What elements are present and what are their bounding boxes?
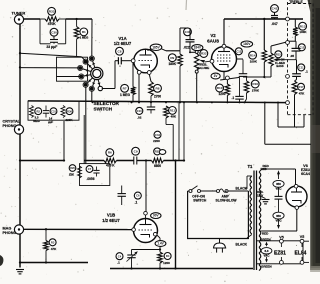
wire cathode V1B (157, 235, 161, 252)
svg-text:6CA4: 6CA4 (301, 172, 310, 176)
svg-text:R2: R2 (36, 109, 40, 113)
label .0056 (87, 177, 95, 181)
svg-text:47K: 47K (299, 91, 305, 95)
svg-text:1 MEG: 1 MEG (80, 36, 89, 40)
heater pin V5 top (280, 239, 284, 243)
svg-text:R16: R16 (252, 82, 258, 86)
resistor R10 (225, 80, 230, 103)
svg-text:C4: C4 (118, 254, 122, 258)
svg-text:R32: R32 (201, 52, 207, 56)
wire vert 184 (183, 102, 185, 161)
label 47K (299, 91, 305, 95)
svg-text:TREBLE: TREBLE (289, 0, 303, 4)
capacitor C13 designator (298, 44, 305, 51)
wire cathode left pin down (138, 74, 140, 102)
heater wires right (304, 241, 309, 262)
label 470K (106, 163, 115, 167)
svg-text:C10: C10 (137, 109, 142, 113)
label SELECTOR SWITCH (94, 101, 120, 111)
label TREB VOLUME (196, 63, 209, 70)
gang pin (286, 101, 290, 105)
resistor R11 (164, 106, 169, 125)
svg-text:90V: 90V (153, 214, 160, 218)
label 270K (252, 89, 260, 93)
svg-text:RED: RED (263, 164, 270, 168)
resistor R16 designator (251, 80, 259, 88)
junction (138, 101, 140, 103)
svg-text:R4: R4 (166, 254, 170, 258)
junction (277, 102, 279, 104)
svg-text:V2: V2 (210, 33, 216, 38)
jack J3 MAG (14, 225, 23, 234)
dashed gang top (288, 3, 314, 5)
svg-text:1 MEG: 1 MEG (120, 93, 130, 97)
label .047 (271, 22, 277, 26)
svg-text:470K: 470K (48, 22, 57, 26)
capacitor C feedback (235, 77, 243, 102)
label AMP SLOW-BLOW (216, 194, 238, 202)
svg-text:270K: 270K (252, 89, 260, 93)
svg-text:μμF: μμF (48, 120, 54, 124)
wire left vertical lower (19, 133, 21, 225)
wire selector to C7 box (85, 87, 87, 164)
capacitor C6 stub (118, 186, 126, 206)
wire pot wiper node (296, 60, 298, 74)
tube V1A (134, 49, 158, 73)
svg-text:.0056: .0056 (87, 177, 95, 181)
secondary tap lead (259, 196, 266, 199)
measure wire mid (278, 187, 280, 196)
svg-text:180V: 180V (243, 42, 251, 46)
selector switch SW1 (78, 56, 103, 92)
voltage 350VAC (273, 180, 284, 190)
secondary mid lead RED (259, 230, 297, 232)
label .02 (137, 116, 142, 120)
dashed gang right (312, 4, 314, 115)
wire phono feed upper (20, 53, 86, 61)
wire mag jack down to ground (19, 233, 21, 268)
svg-text:EZ81: EZ81 (274, 250, 286, 256)
svg-text:R9: R9 (170, 56, 174, 60)
label 45K (171, 115, 177, 119)
wire top bus y19 (224, 18, 303, 20)
wire tuner to R33 box (23, 18, 40, 20)
potentiometer R32 (194, 50, 199, 102)
svg-text:R15: R15 (276, 52, 281, 56)
label TREBLE top fragment (289, 0, 303, 4)
designator A1 (69, 165, 76, 172)
AC plug (213, 239, 226, 253)
junction (131, 101, 133, 103)
svg-text:22K: 22K (69, 172, 75, 176)
wire down to selector top (91, 19, 93, 56)
pot R32 designator (200, 50, 208, 58)
resistor R7 (131, 63, 136, 103)
selector wiring box (57, 57, 88, 81)
pot R15 designator (275, 51, 282, 58)
svg-text:C7: C7 (88, 167, 92, 171)
svg-text:.05: .05 (290, 54, 295, 58)
label R15 lines (275, 58, 285, 68)
resistor R4 (158, 252, 163, 269)
resistor R5 in box (78, 166, 82, 178)
resistor R3 (44, 228, 49, 262)
resistor R7 designator (121, 84, 129, 92)
label V6 (301, 164, 310, 176)
resistor R10 designator (216, 84, 224, 92)
cathode pins V1A (137, 70, 151, 74)
svg-text:CRYSTAL: CRYSTAL (3, 119, 21, 123)
label 2200 (153, 139, 160, 143)
grid pin V1A (131, 59, 135, 63)
label .1 cap (231, 96, 234, 100)
svg-text:6AU8: 6AU8 (207, 38, 219, 43)
gang pin (286, 17, 290, 21)
wire C8 to grid (121, 60, 131, 62)
capacitor C30 (50, 36, 58, 44)
label BLACK lower (236, 242, 248, 246)
svg-text:45K: 45K (171, 115, 177, 119)
svg-text:.047: .047 (271, 22, 277, 26)
wire R14 node (243, 76, 271, 78)
svg-text:EL84: EL84 (295, 250, 307, 256)
label GREEN top (260, 238, 271, 242)
ground symbol left (16, 270, 24, 274)
resistor R14 (262, 18, 267, 77)
gang pin (286, 75, 290, 79)
heater wires (281, 243, 302, 260)
svg-text:350: 350 (276, 182, 281, 186)
capacitor C4 designator (116, 253, 123, 260)
svg-text:R13: R13 (300, 24, 306, 28)
svg-text:C9: C9 (134, 149, 138, 153)
label 14 uuF (48, 116, 54, 124)
wire ground bus left (19, 261, 88, 263)
capacitor C40 (186, 28, 195, 52)
plate wire V2 up (223, 19, 225, 44)
label V1B (102, 213, 120, 223)
label 1200 (218, 92, 225, 96)
measure wire mid2 (278, 199, 280, 212)
wire ground bus 2 (110, 267, 253, 269)
tube V6 (286, 186, 307, 207)
svg-text:C13: C13 (236, 49, 241, 53)
svg-text:SLOW-BLOW: SLOW-BLOW (216, 199, 238, 203)
label C6 .1 (135, 200, 138, 204)
junction (239, 101, 241, 103)
svg-text:.02: .02 (137, 116, 142, 120)
wiper arrow R32 (199, 60, 210, 63)
potentiometer R15 (269, 42, 287, 77)
svg-text:.1: .1 (117, 261, 120, 265)
resistor R6 designator (106, 149, 114, 157)
wire plate riser (180, 28, 189, 51)
plate pin V1B (144, 211, 148, 218)
resistor R13 designator (299, 22, 307, 30)
wire chain mid2 (137, 160, 152, 162)
wire phono feed middle (20, 67, 79, 69)
label 1200 R4 (163, 261, 170, 265)
wire heater drop (174, 159, 176, 268)
resistor R8 (149, 82, 154, 103)
capacitor C11 (292, 74, 301, 80)
wire node B (19, 66, 21, 68)
grid pin V2 (210, 59, 214, 63)
svg-text:R33: R33 (49, 9, 55, 13)
capacitor C7 (93, 167, 99, 177)
wire R33 out (66, 18, 92, 20)
svg-text:VDC: VDC (275, 218, 282, 222)
label T1 (248, 164, 254, 169)
label V5 (279, 236, 283, 240)
capacitor C14 (275, 196, 283, 199)
label RED mid (262, 231, 269, 235)
voltage 184V (192, 45, 203, 51)
svg-text:47K: 47K (51, 247, 57, 251)
ground symbol T1 tap (262, 200, 270, 204)
svg-text:115V: 115V (257, 193, 263, 197)
svg-text:C6: C6 (136, 194, 140, 198)
tube V1B (134, 219, 158, 243)
tube V2 (212, 47, 237, 72)
wire chain right (164, 160, 185, 162)
svg-text:180K: 180K (168, 62, 176, 66)
capacitor C12 designator (235, 48, 242, 55)
capacitor C8 (118, 57, 121, 67)
scan dark band right edge (308, 0, 320, 284)
resistor R9 designator (168, 54, 176, 62)
junction (244, 101, 246, 103)
label EZ81 (274, 250, 286, 256)
resistor R2 (30, 106, 34, 118)
label 470K (48, 22, 57, 26)
wire to V1B plate (145, 159, 147, 211)
wire coupling chain (84, 160, 104, 162)
capacitor C13 (292, 41, 301, 60)
resistor R1 designator (80, 28, 88, 36)
transformer T1 secondary (259, 172, 261, 271)
resistor R11 designator (169, 107, 177, 115)
svg-text:350: 350 (276, 214, 281, 218)
resistor R14 designator (249, 51, 257, 59)
resistor R36 designator (66, 108, 73, 115)
capacitor C41 (271, 12, 278, 19)
label CRYSTAL PHONO (3, 119, 21, 128)
capacitor C30 designator (50, 28, 58, 36)
svg-text:R6: R6 (108, 151, 112, 155)
label GREEN bottom (261, 265, 272, 269)
resistor R16 (244, 77, 249, 102)
wire cathode tee (132, 249, 161, 251)
capacitor C40 designator (184, 28, 192, 36)
capacitor C9 (134, 155, 137, 165)
svg-text:C11: C11 (299, 65, 304, 69)
wiper arrow R15 (273, 58, 296, 61)
gang pin (286, 41, 290, 45)
label 3.3 MEG (33, 115, 40, 123)
svg-text:184V: 184V (194, 46, 202, 50)
plate pin V6 (294, 184, 298, 188)
resistor R13 (293, 19, 298, 41)
svg-text:.1: .1 (305, 69, 308, 73)
svg-text:R14: R14 (250, 53, 256, 57)
label V4 (300, 235, 304, 239)
svg-text:R17: R17 (299, 85, 304, 89)
svg-text:T1: T1 (248, 164, 254, 169)
junction (179, 101, 181, 103)
capacitor C11 designator (298, 64, 305, 71)
label 1 MEG (80, 36, 89, 40)
svg-text:SWITCH: SWITCH (94, 107, 113, 112)
svg-text:R36: R36 (67, 109, 72, 113)
capacitor C31 designator (50, 108, 57, 115)
wire feedback branch (278, 103, 304, 128)
wire R11 jog (166, 125, 173, 161)
plate wire V1A (148, 49, 181, 51)
wire node A (19, 52, 21, 54)
label .05 (290, 54, 295, 58)
label OFF-ON SWITCH (192, 194, 207, 202)
cathode pin V6 (295, 206, 299, 210)
resistor R31 designator (154, 148, 161, 155)
wire red to V6 (295, 169, 297, 185)
capacitor C31 (43, 106, 49, 118)
wire selector bottom terminal 1 (91, 91, 93, 102)
capacitor C34 designator (154, 131, 161, 138)
svg-text:470 K: 470 K (106, 163, 115, 167)
cathode wire V2 (220, 72, 239, 80)
voltage 0V (159, 150, 166, 155)
label EL84 (295, 250, 307, 256)
scan fold line top (185, 0, 188, 10)
jack J2 CRYSTAL (14, 125, 23, 134)
svg-text:VOLUME: VOLUME (196, 66, 209, 70)
svg-text:R3: R3 (51, 240, 55, 244)
capacitor C6 designator (134, 192, 141, 199)
resistor R36 (61, 106, 65, 118)
label R7 1 MEG (120, 93, 130, 97)
transformer T1 primary (245, 176, 252, 238)
svg-text:220K: 220K (66, 118, 74, 122)
svg-text:GREEN: GREEN (261, 265, 272, 269)
svg-text:1/2 6EU7: 1/2 6EU7 (114, 41, 132, 46)
junction (165, 101, 167, 103)
wire vert 179 (178, 102, 180, 160)
voltage 185V (150, 44, 162, 50)
label C40 .022 (183, 45, 189, 49)
svg-text:C41: C41 (272, 7, 278, 11)
grid pin V1B (132, 228, 136, 232)
label 100K R13 (299, 30, 307, 34)
wire C40 to pot (189, 51, 197, 53)
plate pin V2 (222, 44, 226, 48)
capacitor C10 (147, 102, 155, 113)
svg-text:.022: .022 (183, 45, 189, 49)
wire horizontal y160 left (19, 159, 65, 161)
svg-text:MEG: MEG (33, 119, 40, 123)
svg-text:1200: 1200 (218, 92, 225, 96)
resistor R33 (40, 17, 66, 22)
junction (226, 101, 228, 103)
svg-text:2200: 2200 (153, 139, 160, 143)
svg-text:R26: R26 (70, 166, 75, 170)
label A1 value (69, 167, 80, 177)
wire V2 to C12 (237, 58, 244, 60)
junction (150, 101, 152, 103)
resistor R6 (104, 158, 117, 163)
dashed gang bottom (288, 114, 314, 116)
jack J1 TUNER (14, 15, 23, 24)
svg-text:100K: 100K (299, 30, 307, 34)
svg-text:SWITCH: SWITCH (193, 199, 207, 203)
voltage 350VDC (273, 212, 284, 222)
wire ground bus vertical left (19, 24, 21, 126)
svg-text:C8: C8 (118, 49, 122, 53)
resistor R1 (74, 19, 79, 56)
measure arrow up (277, 170, 280, 179)
heater box (257, 241, 304, 264)
label RED T1 top (261, 167, 268, 171)
fuse F1 (217, 189, 249, 193)
svg-text:.1: .1 (231, 96, 234, 100)
svg-text:C31: C31 (51, 109, 56, 113)
svg-text:.1: .1 (135, 200, 138, 204)
wire switch to C8 (102, 61, 118, 89)
label MAG PHONO (3, 226, 17, 235)
voltage 180V (241, 41, 253, 47)
resistor R2 designator (35, 108, 42, 115)
svg-text:R10: R10 (217, 86, 223, 90)
C7 box (80, 164, 110, 186)
svg-text:VAC: VAC (264, 253, 271, 257)
capacitor C10 designator (136, 107, 143, 114)
power box (188, 191, 249, 239)
label .03 (305, 69, 308, 73)
label 100K R14 (250, 60, 258, 64)
svg-text:1.4V: 1.4V (157, 242, 164, 246)
voltage 3V (211, 73, 220, 79)
wire chain mid (117, 160, 134, 162)
phono network box (28, 101, 79, 120)
junction (196, 101, 198, 103)
scan blob left edge (0, 255, 3, 266)
svg-text:R1: R1 (82, 30, 86, 34)
resistor R31 (152, 158, 164, 163)
label V2 6AU8 (207, 33, 219, 44)
heater pin V4 bottom (300, 261, 304, 265)
capacitor C12 (239, 60, 247, 77)
svg-text:1/2 6EU7: 1/2 6EU7 (102, 218, 120, 223)
label RED-1500 (257, 190, 264, 197)
junction (183, 101, 185, 103)
cathode pin V1B (153, 232, 157, 236)
voltage 6.3VAC (261, 248, 272, 258)
resistor R9 (178, 51, 183, 103)
voltage 1.4V (155, 241, 166, 247)
capacitor C9 designator (132, 147, 140, 155)
label RED lead (263, 164, 270, 168)
svg-text:VAC: VAC (276, 187, 283, 191)
junction (264, 102, 266, 104)
secondary top lead RED (259, 169, 296, 172)
svg-text:C30: C30 (51, 30, 57, 34)
svg-text:2700: 2700 (154, 94, 161, 98)
label 47K R3 (51, 247, 57, 251)
svg-text:33 μμF: 33 μμF (46, 45, 57, 49)
wire cathode right pin (149, 74, 151, 81)
junction (211, 101, 213, 103)
wire phono feed lower (57, 76, 80, 78)
